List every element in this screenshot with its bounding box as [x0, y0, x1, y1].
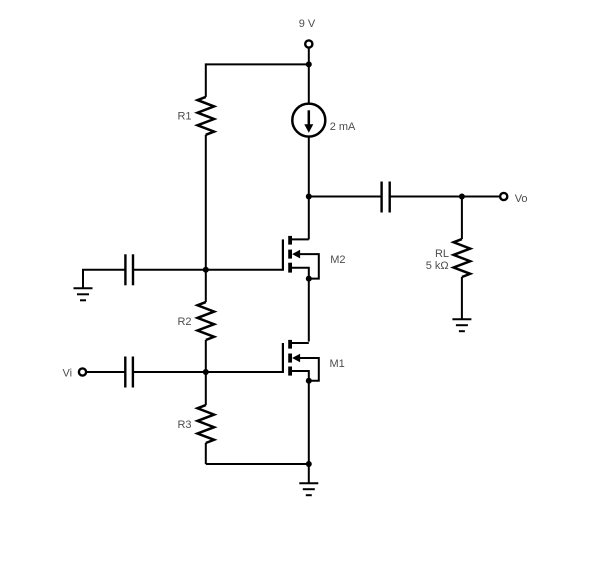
- svg-text:Vi: Vi: [63, 368, 73, 380]
- resistor R2: [177, 302, 214, 340]
- junction R1/R2/gate node: [203, 267, 209, 273]
- wire top rail down to R1: [205, 63, 207, 97]
- wire M2 source to M1 drain: [308, 279, 310, 342]
- M2 body lead: [299, 254, 319, 279]
- M1 body lead: [299, 358, 319, 381]
- transistor M1: [206, 340, 345, 384]
- svg-text:M2: M2: [330, 254, 345, 266]
- wire junction to R3: [205, 372, 207, 405]
- node 9V terminal: [299, 18, 316, 47]
- M2 source lead: [290, 268, 309, 279]
- svg-text:RL: RL: [435, 248, 449, 260]
- resistor R3: [177, 405, 214, 443]
- node Vi terminal: [63, 368, 87, 380]
- M1 body arrow: [292, 354, 300, 363]
- M1 drain lead: [290, 342, 309, 344]
- M2 gate bar: [282, 239, 284, 270]
- wire R2 to lower junction: [205, 340, 207, 372]
- capacitor C3 input coupling: [86, 357, 206, 388]
- node Vo terminal: [500, 193, 527, 205]
- svg-text:2 mA: 2 mA: [330, 121, 356, 133]
- junction R2/R3/gate node: [203, 369, 209, 375]
- junction RL / Vo node: [459, 194, 465, 200]
- wire ground corner to C1: [82, 269, 125, 271]
- wire C1 to junction / M2 gate: [133, 269, 283, 271]
- ground (bottom): [299, 464, 318, 495]
- wire junction to R2: [205, 270, 207, 302]
- wire R3 down to bottom rail: [205, 443, 207, 464]
- M1 gate bar: [282, 343, 284, 373]
- svg-text:R2: R2: [177, 316, 191, 328]
- wire bottom rail horizontal: [206, 463, 309, 465]
- wire R1 to mid junction: [205, 135, 207, 270]
- M1 channel bars: [288, 340, 292, 349]
- junction bottom rail / M1 source / ground: [306, 461, 312, 467]
- M2 source/body junction: [306, 276, 312, 282]
- M2 body arrow: [292, 250, 300, 259]
- ground (below RL): [452, 319, 471, 331]
- M2 channel bars: [288, 236, 292, 245]
- wire M1 source down to bottom rail: [308, 381, 310, 464]
- junction drain of M2 / output node: [306, 194, 312, 200]
- svg-text:5 kΩ: 5 kΩ: [426, 260, 449, 272]
- M1 source/body junction: [306, 378, 312, 384]
- M1 source lead: [290, 371, 309, 381]
- svg-text:M1: M1: [330, 358, 345, 370]
- resistor R1: [177, 97, 214, 135]
- C1 plates: [124, 254, 126, 285]
- M2 drain lead: [308, 197, 310, 240]
- svg-text:Vo: Vo: [515, 193, 528, 205]
- junction top node: [306, 61, 312, 67]
- M1 gate lead: [206, 371, 283, 373]
- capacitor C1 bypass with ground: [74, 254, 283, 300]
- current source I1 2 mA: [292, 64, 356, 196]
- wire top rail horizontal: [206, 63, 309, 65]
- transistor M2: [283, 197, 346, 282]
- svg-text:R1: R1: [177, 111, 191, 123]
- resistor RL 5k: [426, 197, 471, 320]
- wire to Vo terminal: [462, 196, 500, 198]
- svg-text:R3: R3: [177, 419, 191, 431]
- ground (left): [82, 270, 84, 288]
- capacitor C2 output coupling: [309, 182, 462, 213]
- svg-text:9 V: 9 V: [299, 18, 316, 30]
- wire from 9V terminal down to top junction: [308, 48, 310, 65]
